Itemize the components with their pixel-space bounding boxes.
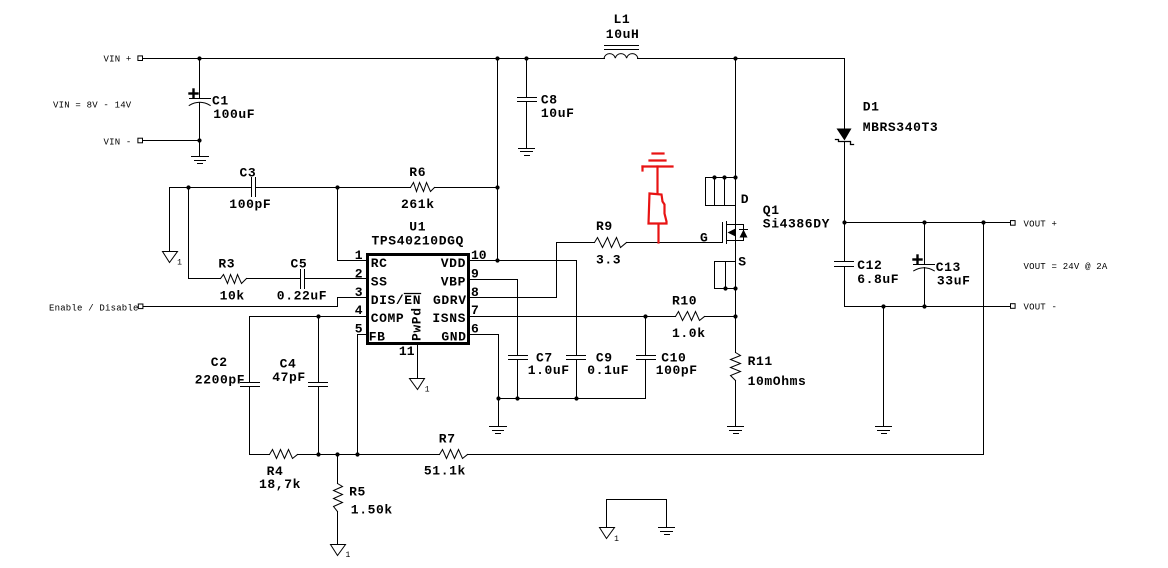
junction GND net <box>496 396 500 400</box>
junction R6 at VDD branch <box>495 185 499 189</box>
svg-text:VIN -: VIN - <box>104 138 132 148</box>
capacitor C4 <box>318 317 320 383</box>
wire VBP pin9 to C7 <box>469 280 518 356</box>
junction C13 top <box>922 220 926 224</box>
resistor R7 <box>440 450 468 459</box>
capacitor C13 polarized <box>924 223 926 265</box>
capacitor C7 <box>509 355 528 357</box>
wire VOUT+ rail <box>845 222 1011 224</box>
svg-text:SS: SS <box>371 274 388 289</box>
transistor Q1 source pin block <box>715 262 736 289</box>
svg-text:C3: C3 <box>240 165 257 180</box>
svg-text:Enable / Disable: Enable / Disable <box>49 303 139 313</box>
svg-text:VIN +: VIN + <box>104 55 132 65</box>
resistor R6 <box>411 183 435 192</box>
junction C4 bottom <box>316 452 320 456</box>
junction R11 top <box>733 314 737 318</box>
wire C5 to pin2 SS <box>305 278 368 280</box>
junction C4 top <box>316 314 320 318</box>
svg-text:S: S <box>738 255 746 270</box>
ground below C1 <box>192 156 209 158</box>
svg-text:0.22uF: 0.22uF <box>277 288 327 303</box>
capacitor C10 <box>645 317 647 356</box>
wire FB branch <box>358 335 368 455</box>
wire VIN+ rail right of L1 <box>638 58 845 60</box>
capacitor C9 <box>576 261 578 356</box>
capacitor C3 <box>251 178 253 197</box>
capacitor C8 <box>526 59 528 98</box>
wire VOUT- rail <box>845 306 1011 308</box>
port VIN+ terminal <box>138 56 143 61</box>
svg-text:VOUT +: VOUT + <box>1024 219 1058 229</box>
junction C7 bottom <box>515 396 519 400</box>
wire R9 to gate <box>627 242 723 244</box>
junction C1 top <box>197 56 201 60</box>
wire R10 to R11 <box>705 316 736 318</box>
wire Enable to pin3 <box>144 298 368 307</box>
svg-text:2200pF: 2200pF <box>195 372 245 387</box>
svg-text:4: 4 <box>355 303 363 318</box>
svg-text:VOUT -: VOUT - <box>1024 302 1058 312</box>
svg-text:261k: 261k <box>401 197 435 212</box>
C1 plus sign <box>190 90 198 98</box>
ground below C8 <box>519 148 535 150</box>
wire R7 to output <box>468 223 984 455</box>
svg-text:1.0uF: 1.0uF <box>528 363 570 378</box>
junction C8 top <box>524 56 528 60</box>
ground below pin6 <box>490 426 507 428</box>
capacitor C1 polarized <box>199 59 201 99</box>
svg-text:3: 3 <box>355 285 363 300</box>
svg-text:2: 2 <box>355 266 363 281</box>
capacitor C2 <box>249 317 251 383</box>
junction pin10 VDD <box>495 258 499 262</box>
junction C9 bottom <box>574 396 578 400</box>
wire GDRV net <box>469 243 595 298</box>
Q1 body diode <box>740 229 748 231</box>
wire ground tie <box>607 500 667 528</box>
earth ground tie <box>659 527 675 529</box>
svg-text:R6: R6 <box>409 165 426 180</box>
port VOUT+ terminal <box>1011 221 1016 226</box>
junction FB branch bottom <box>355 452 359 456</box>
resistor R9 <box>595 238 627 248</box>
wire R11 top lead <box>735 317 737 353</box>
wire VIN- <box>143 140 200 142</box>
svg-text:D: D <box>741 192 749 207</box>
svg-text:C2: C2 <box>211 355 228 370</box>
wire R6 to VDD branch <box>435 187 498 189</box>
svg-text:R11: R11 <box>748 354 773 369</box>
transistor Q1 mosfet symbol <box>722 223 724 243</box>
red probe body <box>649 194 667 243</box>
svg-text:100uF: 100uF <box>213 107 255 122</box>
junction drain pins <box>712 175 716 179</box>
red probe ground bars <box>643 154 673 171</box>
svg-text:C5: C5 <box>291 256 308 271</box>
svg-text:R5: R5 <box>349 485 366 500</box>
svg-text:VDD: VDD <box>441 256 466 271</box>
resistor R3 <box>221 275 247 284</box>
wire C1 to ground <box>199 141 201 157</box>
junction drain branch top <box>733 56 737 60</box>
svg-text:C12: C12 <box>857 258 882 273</box>
svg-text:VIN = 8V - 14V: VIN = 8V - 14V <box>53 101 132 111</box>
svg-text:COMP: COMP <box>371 311 405 326</box>
svg-text:51.1k: 51.1k <box>424 463 466 478</box>
svg-text:RC: RC <box>371 256 388 271</box>
svg-text:6.8uF: 6.8uF <box>857 272 899 287</box>
resistor R10 <box>676 312 705 321</box>
Q1 source arrow <box>728 229 736 237</box>
diode D1 <box>844 59 846 129</box>
wire R5 bottom lead <box>337 512 339 544</box>
wire R11 to ground <box>735 381 737 427</box>
svg-text:R10: R10 <box>672 294 697 309</box>
svg-text:GDRV: GDRV <box>433 293 467 308</box>
analog ground 1 under U1 <box>410 379 425 390</box>
wire bypass ground bus <box>499 398 646 400</box>
junction C1 bottom <box>197 138 201 142</box>
wire to R3 <box>189 278 221 280</box>
junction D1 C12 <box>842 220 846 224</box>
svg-text:10k: 10k <box>220 288 245 303</box>
wire VDD vertical <box>497 59 499 261</box>
wire R4 to R7 <box>298 454 440 456</box>
svg-text:MBRS340T3: MBRS340T3 <box>863 120 939 135</box>
inductor L1 <box>604 54 638 59</box>
svg-text:100pF: 100pF <box>656 363 698 378</box>
svg-text:1: 1 <box>425 386 430 395</box>
junction feedback tap <box>981 220 985 224</box>
analog ground 1 left <box>163 252 178 263</box>
transistor Q1 drain pin block <box>706 178 736 206</box>
svg-text:1: 1 <box>355 248 363 263</box>
svg-text:DIS/EN: DIS/EN <box>371 293 421 308</box>
junction R3 branch <box>186 185 190 189</box>
svg-text:G: G <box>700 231 708 246</box>
junction R5 top <box>335 452 339 456</box>
ground below output <box>876 426 892 428</box>
svg-text:1: 1 <box>614 535 619 544</box>
svg-text:TPS40210DGQ: TPS40210DGQ <box>372 233 464 248</box>
svg-text:FB: FB <box>369 330 386 345</box>
svg-text:100pF: 100pF <box>229 197 271 212</box>
port VOUT- terminal <box>1011 304 1016 309</box>
C13 plus sign <box>914 256 922 264</box>
wire pin 11 stub <box>417 344 419 379</box>
wire pin1 RC branch <box>338 188 368 261</box>
svg-text:10uH: 10uH <box>606 27 640 42</box>
svg-text:D1: D1 <box>863 100 880 115</box>
svg-text:1: 1 <box>177 259 182 268</box>
resistor R11 <box>731 353 741 381</box>
svg-text:R3: R3 <box>218 256 235 271</box>
analog ground 1 under R5 <box>331 545 346 556</box>
wire compensation net left corner <box>170 188 252 252</box>
svg-text:GND: GND <box>441 330 466 345</box>
resistor R4 <box>270 450 298 459</box>
svg-text:R7: R7 <box>439 432 456 447</box>
wire output ground stem <box>883 307 885 427</box>
svg-text:VBP: VBP <box>441 274 466 289</box>
svg-text:Si4386DY: Si4386DY <box>763 217 830 232</box>
red probe stem <box>656 167 658 193</box>
svg-text:0.1uF: 0.1uF <box>587 363 629 378</box>
capacitor C5 <box>300 270 302 289</box>
ground below R11 <box>728 426 744 428</box>
wire VDD pin10 to C9 <box>469 260 577 262</box>
wire C2 to R4 <box>250 454 270 456</box>
analog ground 1 tie <box>600 528 615 539</box>
resistor R5 <box>334 484 343 512</box>
svg-text:47pF: 47pF <box>272 370 306 385</box>
port Enable terminal <box>138 304 143 309</box>
junction C10 top <box>643 314 647 318</box>
svg-text:R9: R9 <box>596 219 613 234</box>
junction C13 bottom <box>922 304 926 308</box>
wire R3 branch vertical <box>188 188 190 279</box>
wire R3 to C5 <box>247 278 301 280</box>
junction VDD branch top <box>495 56 499 60</box>
svg-text:10mOhms: 10mOhms <box>748 374 807 389</box>
svg-text:1.50k: 1.50k <box>351 502 393 517</box>
svg-text:ISNS: ISNS <box>432 311 466 326</box>
wire VIN+ rail left <box>143 58 605 60</box>
wire C3 to R6 <box>256 187 411 189</box>
wire R5 top lead <box>337 455 339 484</box>
svg-text:PwPd: PwPd <box>410 307 425 341</box>
svg-text:VOUT = 24V @ 2A: VOUT = 24V @ 2A <box>1024 262 1108 272</box>
op-amp U1 TPS40210DGQ body <box>368 255 469 344</box>
wire GND pin6 net <box>469 335 499 427</box>
svg-text:11: 11 <box>399 344 415 359</box>
overline on EN <box>405 293 421 295</box>
svg-text:1: 1 <box>346 551 351 560</box>
wire COMP net <box>250 316 368 318</box>
svg-text:10uF: 10uF <box>541 106 575 121</box>
junction pin1 branch <box>335 185 339 189</box>
svg-text:33uF: 33uF <box>937 274 971 289</box>
junction output ground <box>881 304 885 308</box>
svg-text:1.0k: 1.0k <box>672 326 706 341</box>
svg-text:7: 7 <box>471 303 479 318</box>
wire drain branch vertical <box>735 59 737 317</box>
svg-text:18,7k: 18,7k <box>259 477 301 492</box>
svg-text:3.3: 3.3 <box>596 253 621 268</box>
wire ISNS pin7 net <box>469 316 676 318</box>
port VIN- terminal <box>138 138 143 143</box>
svg-text:L1: L1 <box>614 12 631 27</box>
capacitor C12 <box>844 223 846 262</box>
junction source pins <box>723 286 727 290</box>
